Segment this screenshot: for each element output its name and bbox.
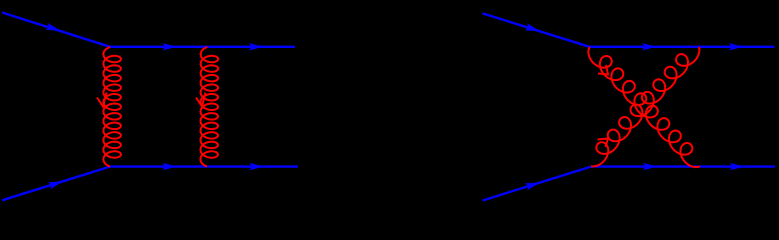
momentum arrow on gluon g1 [97,93,107,107]
gluon propagator g4 (crossed, bottom-left to top-right) [591,47,699,166]
gluon propagator g2 (right vertical) [200,47,218,167]
incoming quark line q4 (bottom left of right diagram) [483,167,592,201]
outgoing quark line q2 (bottom) [110,165,298,167]
gluon propagator g3 (crossed, top-left to bottom-right) [588,47,700,167]
arrow on incoming quark q4 [525,183,540,191]
outgoing quark line q1 (top) [110,46,295,48]
arrow on incoming quark q3 [525,23,540,31]
momentum arrow on gluon g4 [598,139,609,148]
arrow 2 on bottom quark line [250,163,265,170]
incoming quark line q3 (top left of right diagram) [483,13,590,46]
arrow 1 on top quark line of right diagram [642,43,657,50]
arrow on incoming quark q1 [46,23,61,31]
gluon propagator g1 (left vertical) [103,47,121,167]
arrow on incoming quark q2 [48,181,63,189]
outgoing quark line q3 (top of right diagram) [590,46,775,48]
arrow 2 on top quark line of right diagram [729,43,744,50]
arrow 1 on top quark line [163,43,178,50]
incoming quark line q2 (bottom left) [2,167,110,201]
arrow 2 on top quark line [249,43,264,50]
arrow 1 on bottom quark line [163,163,178,170]
momentum arrow on gluon g3 [598,65,608,75]
arrow 1 on bottom quark line of right diagram [643,163,658,170]
incoming quark line q1 (top left) [2,13,110,47]
arrow 2 on bottom quark line of right diagram [730,163,745,170]
outgoing quark line q4 (bottom of right diagram) [591,165,775,167]
momentum arrow on gluon g2 [196,93,206,107]
